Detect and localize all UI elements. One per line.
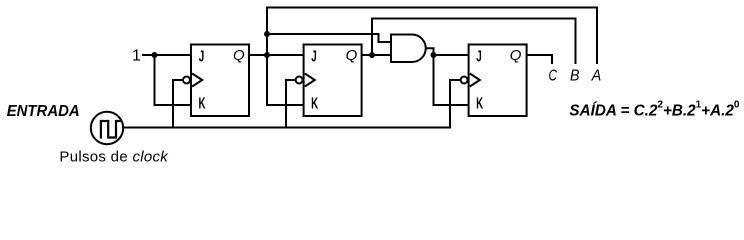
wire: Q1 to J2 (249, 54, 304, 56)
svg-text:C: C (548, 67, 557, 84)
wire: node 1 down to K1 (155, 55, 192, 105)
wire: 1 to J1 (142, 54, 191, 56)
wire: clock to FF2 clock input (286, 80, 295, 128)
U1 clock bubble (183, 77, 190, 84)
wire: Q2 to AND gate bottom input (362, 54, 391, 56)
wire: Q1 node A feedback (up, across top, down to A) (267, 8, 597, 106)
U3 clock bubble (461, 77, 468, 84)
clock pulse waveform (101, 121, 121, 139)
svg-text:K: K (199, 95, 206, 112)
svg-text:Q: Q (510, 47, 522, 64)
svg-text:ENTRADA: ENTRADA (7, 103, 80, 120)
junction dot Q2 (369, 52, 375, 58)
svg-text:J: J (311, 48, 317, 65)
U2 clock triangle (305, 74, 315, 87)
wire: clock to FF3 clock input (stub) (460, 79, 465, 81)
wire: clock to FF1 clock input (173, 80, 182, 128)
svg-text:SAÍDA = C.22+B.21+A.20: SAÍDA = C.22+B.21+A.20 (569, 99, 739, 120)
junction dot node 1 (152, 52, 158, 58)
flip-flop U3 box (469, 45, 527, 117)
U3 clock triangle (470, 74, 480, 87)
wire: AND output node to J3 (434, 54, 469, 56)
svg-text:Q: Q (346, 47, 358, 64)
svg-text:J: J (199, 48, 205, 65)
svg-text:Q: Q (233, 47, 245, 64)
svg-text:K: K (476, 95, 483, 112)
flip-flop U1 box (191, 45, 249, 117)
junction dot Q1/A vertical at Q1 wire (264, 52, 270, 58)
U2 clock bubble (296, 77, 303, 84)
svg-text:K: K (311, 95, 318, 112)
junction dot AND output (431, 52, 437, 58)
wire: AND output to J3 and down to K3 (426, 48, 469, 105)
wire: clock bus line (123, 80, 459, 128)
svg-text:B: B (570, 67, 580, 84)
wire: Q2 node B (up, across, down to B) (372, 19, 576, 65)
svg-text:J: J (476, 48, 482, 65)
junction dot Q1 branch to AND (264, 31, 270, 37)
svg-text:Pulsos de clock: Pulsos de clock (59, 149, 169, 166)
U1 clock triangle (192, 74, 202, 87)
flip-flop U2 box (304, 45, 362, 117)
clock source CLK (circle) (91, 112, 123, 144)
wire: Q1 branch to AND gate top input (267, 34, 391, 42)
wire: Q3 to C (527, 55, 552, 64)
AND gate U4 (391, 35, 426, 63)
svg-text:1: 1 (132, 48, 141, 65)
svg-text:A: A (591, 67, 601, 84)
